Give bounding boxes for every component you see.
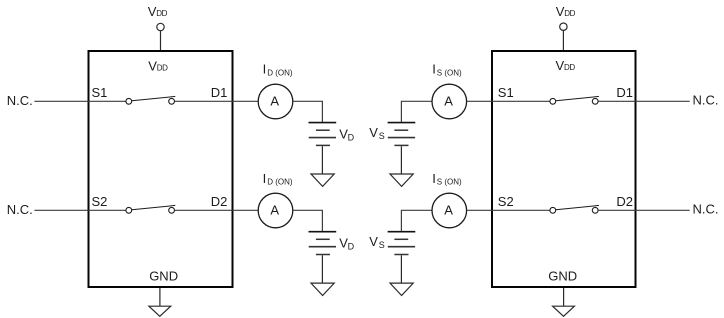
label ID(ON) (row 2 left): [263, 171, 293, 187]
svg-text:D (ON): D (ON): [267, 68, 293, 77]
svg-text:D2: D2: [211, 194, 228, 209]
ground below left box: [149, 288, 171, 316]
pin label VDD (inside right box): [556, 58, 576, 73]
svg-text:I: I: [263, 61, 267, 76]
svg-text:DD: DD: [156, 9, 167, 18]
svg-text:A: A: [270, 93, 279, 108]
VDD terminal circle (right): [560, 23, 567, 30]
svg-text:DD: DD: [564, 63, 575, 72]
svg-text:DD: DD: [157, 64, 168, 73]
wire battery to ammeter (row 2 right): [401, 210, 431, 231]
svg-text:D2: D2: [616, 194, 633, 209]
svg-text:A: A: [444, 93, 453, 108]
ground below battery VD (row 2 left): [311, 255, 334, 295]
svg-text:D: D: [348, 132, 355, 142]
svg-text:D1: D1: [616, 85, 633, 100]
switch S1 (right box): [550, 96, 599, 104]
wire ammeter to S1 (row 1 right): [467, 100, 550, 102]
svg-text:A: A: [444, 202, 453, 217]
svg-text:S2: S2: [498, 194, 514, 209]
ammeter A2 ID(ON) (row 2 left): [258, 193, 293, 228]
wire ammeter to S2 (row 2 right): [467, 209, 550, 211]
wire VDD terminal to box (right): [562, 31, 564, 51]
svg-text:S (ON): S (ON): [437, 178, 462, 187]
svg-text:GND: GND: [149, 269, 178, 284]
svg-text:D1: D1: [211, 85, 228, 100]
svg-text:N.C.: N.C.: [693, 202, 719, 217]
svg-text:I: I: [263, 171, 267, 186]
value label VD (row 1 left): [339, 126, 354, 142]
value label VS (row 1 right): [369, 125, 385, 141]
value label VS (row 2 right): [369, 234, 385, 250]
svg-text:N.C.: N.C.: [693, 93, 719, 108]
battery VS (row 1 right): [388, 123, 416, 146]
DUT box U2 (right): [492, 51, 636, 287]
wire D2 to ammeter (row 2 left): [175, 209, 259, 211]
wire D1 to ammeter (row 1 left): [175, 100, 259, 102]
ground below battery VD (row 1 left): [311, 146, 334, 186]
label IS(ON) (row 2 right): [432, 171, 462, 187]
svg-text:S: S: [379, 240, 385, 250]
svg-text:GND: GND: [548, 269, 577, 284]
svg-text:V: V: [369, 234, 378, 249]
switch S2 (left box): [126, 205, 175, 213]
label ID(ON) (row 1 left): [263, 61, 293, 77]
svg-text:N.C.: N.C.: [7, 202, 33, 217]
ammeter A3 IS(ON) (row 1 right): [432, 84, 467, 119]
wire ammeter to battery (row 1 left): [293, 101, 323, 122]
wire VDD terminal to box (left): [160, 31, 162, 51]
battery VD (row 1 left): [309, 123, 337, 146]
ammeter A1 ID(ON) (row 1 left): [258, 84, 293, 119]
svg-text:V: V: [369, 125, 378, 140]
wire N.C. to S1 contact (row 1 left): [34, 100, 126, 102]
svg-text:DD: DD: [564, 9, 575, 18]
svg-text:S (ON): S (ON): [437, 68, 462, 77]
svg-text:D (ON): D (ON): [267, 178, 293, 187]
ammeter A4 IS(ON) (row 2 right): [432, 193, 467, 228]
wire ammeter to battery (row 2 left): [293, 210, 323, 231]
svg-text:S1: S1: [498, 85, 514, 100]
wire D2 to N.C. (row 2 right): [598, 209, 690, 211]
VDD supply label (top left): [148, 4, 168, 19]
svg-text:S1: S1: [92, 85, 108, 100]
svg-text:S: S: [379, 131, 385, 141]
VDD supply label (top right): [556, 4, 576, 19]
svg-text:I: I: [432, 61, 436, 76]
battery VS (row 2 right): [388, 232, 416, 255]
ground below right box: [553, 288, 575, 316]
svg-text:S2: S2: [92, 194, 108, 209]
DUT box U1 (left): [89, 51, 233, 287]
wire N.C. to S2 contact (row 2 left): [34, 209, 126, 211]
switch S2 (right box): [550, 205, 599, 213]
wire battery to ammeter (row 1 right): [401, 101, 431, 122]
ground below battery VS (row 2 right): [390, 255, 413, 295]
svg-text:I: I: [432, 171, 436, 186]
svg-text:N.C.: N.C.: [7, 93, 33, 108]
wire D1 to N.C. (row 1 right): [598, 100, 690, 102]
VDD terminal circle (left): [157, 23, 164, 30]
value label VD (row 2 left): [339, 236, 354, 252]
battery VD (row 2 left): [309, 232, 337, 255]
pin label VDD (inside left box): [148, 58, 168, 73]
svg-text:A: A: [270, 202, 279, 217]
label IS(ON) (row 1 right): [432, 61, 462, 77]
ground below battery VS (row 1 right): [390, 146, 413, 186]
svg-text:D: D: [348, 242, 355, 252]
switch S1 (left box): [126, 96, 175, 104]
